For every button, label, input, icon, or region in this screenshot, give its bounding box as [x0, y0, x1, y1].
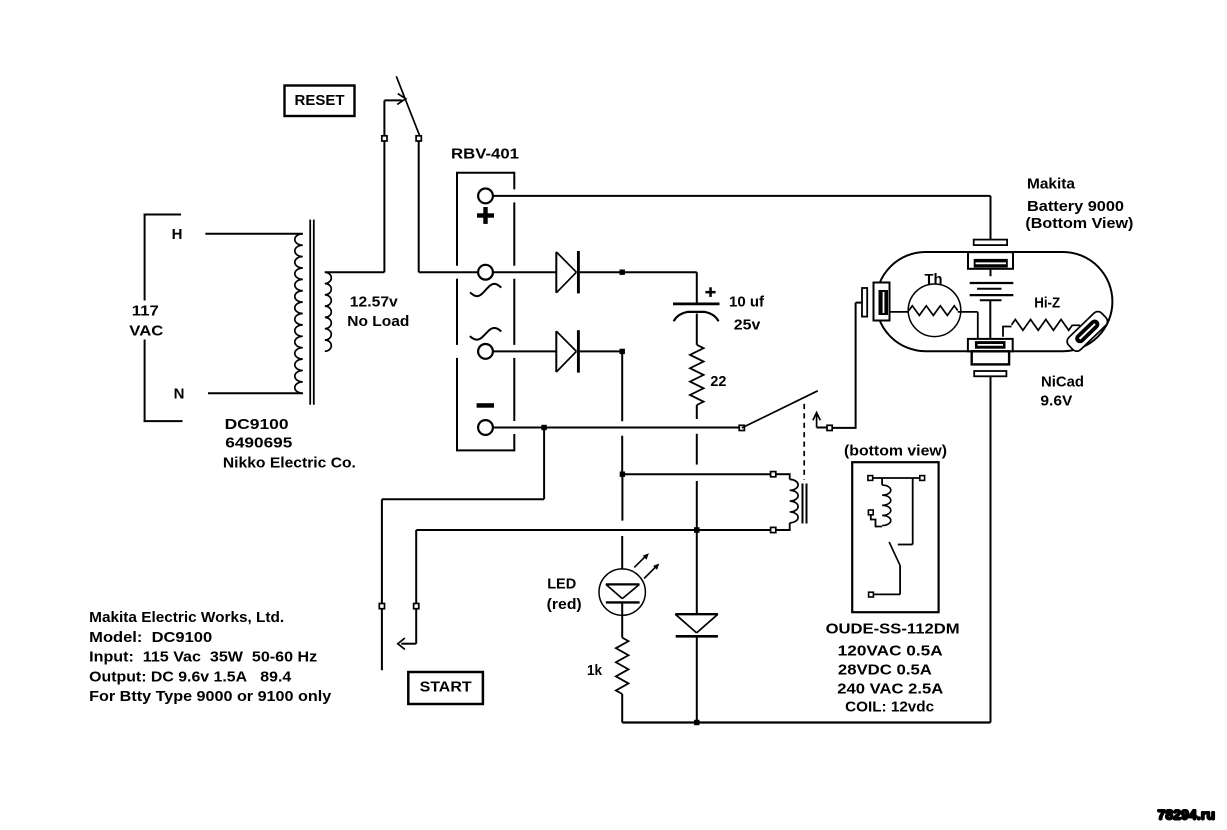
svg-text:6490695: 6490695 — [225, 434, 292, 451]
svg-text:25v: 25v — [734, 316, 761, 333]
svg-text:OUDE-SS-112DM: OUDE-SS-112DM — [826, 621, 960, 638]
svg-text:N: N — [174, 386, 185, 403]
svg-text:120VAC 0.5A: 120VAC 0.5A — [838, 643, 943, 660]
svg-text:Hi-Z: Hi-Z — [1034, 294, 1060, 311]
svg-text:RESET: RESET — [295, 92, 345, 109]
svg-text:H: H — [172, 226, 183, 243]
svg-text:9.6V: 9.6V — [1040, 392, 1072, 409]
svg-text:Makita Electric Works, Ltd.: Makita Electric Works, Ltd. — [89, 609, 284, 626]
svg-text:Input: 115 Vac 35W 50-60 Hz: Input: 115 Vac 35W 50-60 Hz — [89, 649, 317, 666]
svg-text:For Btty Type 9000 or 9100 onl: For Btty Type 9000 or 9100 only — [89, 688, 332, 705]
svg-text:117: 117 — [132, 303, 159, 320]
svg-text:NiCad: NiCad — [1041, 374, 1084, 391]
svg-text:(Bottom View): (Bottom View) — [1025, 215, 1133, 232]
svg-text:78294.ru: 78294.ru — [1158, 806, 1216, 822]
svg-text:Model: DC9100: Model: DC9100 — [89, 629, 212, 646]
svg-text:Battery 9000: Battery 9000 — [1027, 198, 1124, 215]
svg-text:COIL: 12vdc: COIL: 12vdc — [845, 698, 934, 715]
svg-text:No Load: No Load — [347, 313, 409, 330]
svg-text:(bottom view): (bottom view) — [844, 443, 947, 460]
svg-text:Makita: Makita — [1027, 175, 1076, 192]
svg-text:DC9100: DC9100 — [225, 416, 289, 433]
svg-text:10 uf: 10 uf — [729, 294, 765, 311]
svg-text:240 VAC 2.5A: 240 VAC 2.5A — [837, 681, 943, 698]
svg-text:LED: LED — [547, 575, 576, 592]
svg-text:VAC: VAC — [129, 322, 163, 339]
svg-text:22: 22 — [710, 373, 726, 390]
svg-text:Nikko Electric Co.: Nikko Electric Co. — [223, 455, 356, 472]
svg-text:(red): (red) — [547, 596, 582, 613]
svg-text:Output: DC 9.6v 1.5A 89.4: Output: DC 9.6v 1.5A 89.4 — [89, 668, 292, 685]
svg-text:28VDC 0.5A: 28VDC 0.5A — [838, 662, 932, 679]
svg-text:START: START — [420, 679, 472, 696]
svg-text:1k: 1k — [587, 662, 603, 679]
svg-text:12.57v: 12.57v — [350, 293, 399, 310]
svg-text:RBV-401: RBV-401 — [451, 146, 519, 163]
